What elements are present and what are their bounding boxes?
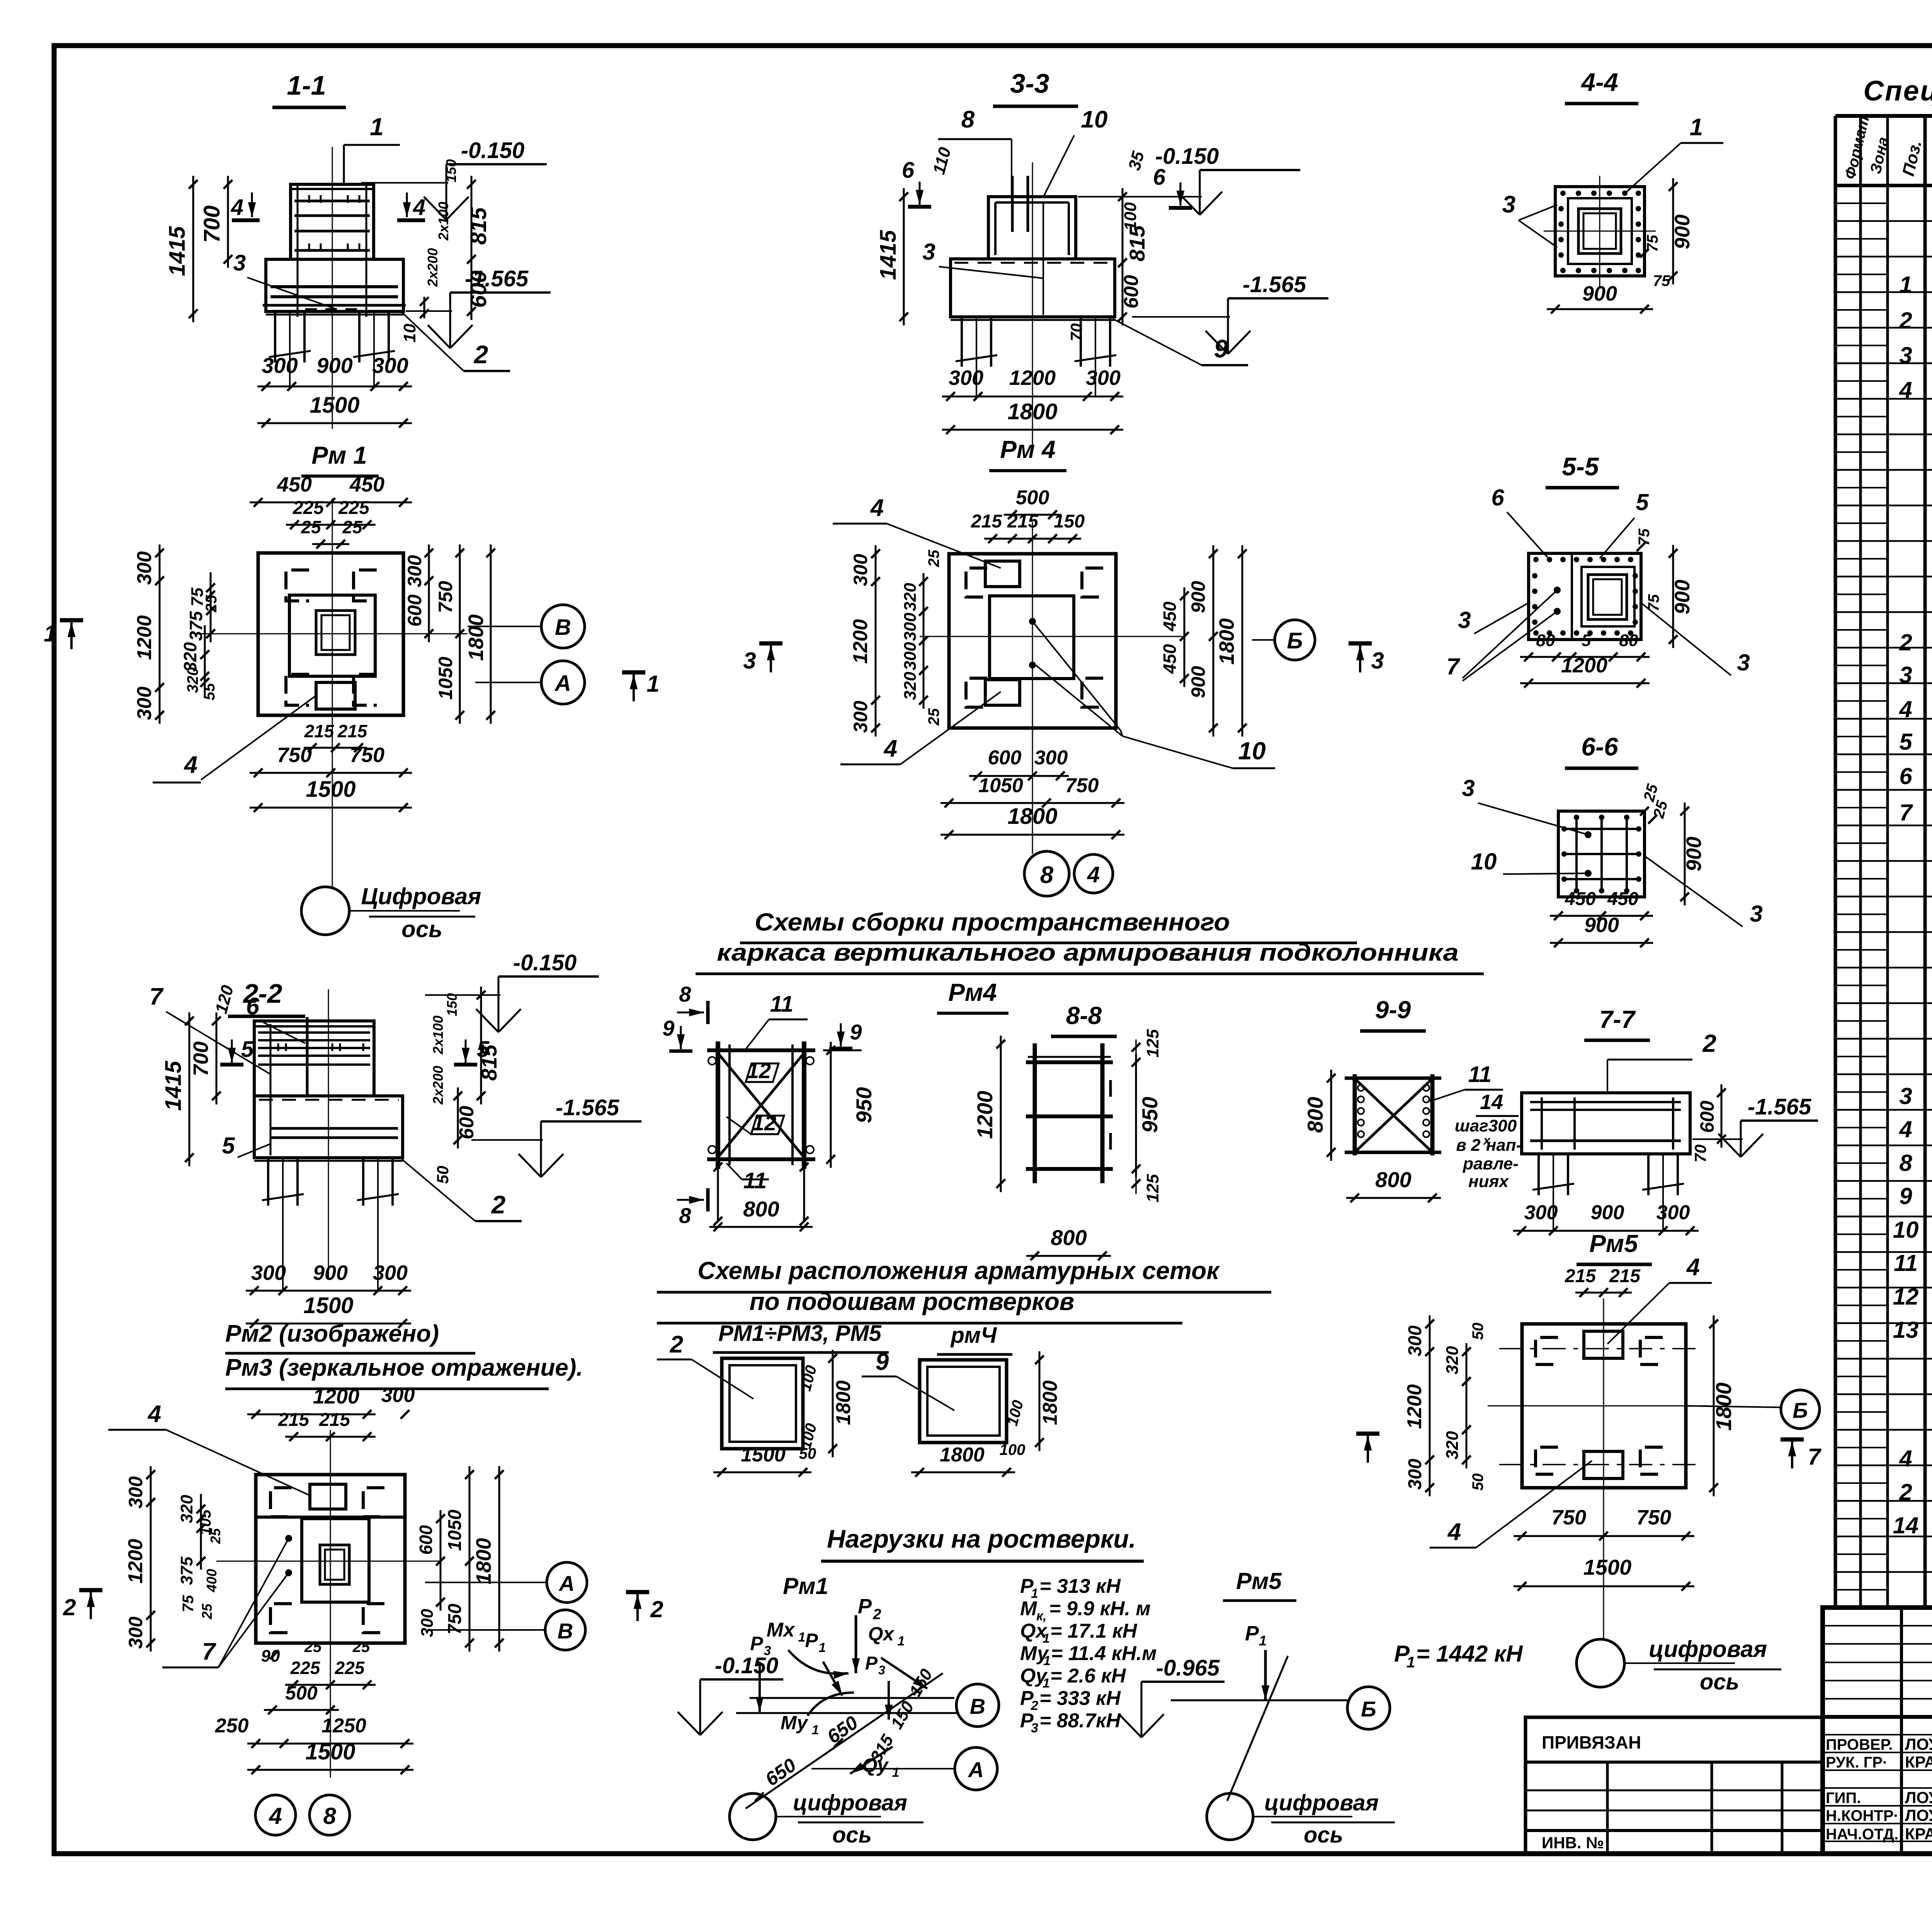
svg-text:600: 600 (404, 594, 425, 627)
svg-text:5: 5 (1899, 729, 1913, 755)
svg-text:4: 4 (1686, 1254, 1700, 1281)
svg-text:5: 5 (222, 1133, 235, 1159)
section 3-3 rebar verticals (1011, 176, 1014, 232)
svg-text:1500: 1500 (303, 1293, 353, 1318)
svg-text:-0.965: -0.965 (1156, 1655, 1220, 1681)
svg-text:3: 3 (922, 239, 935, 265)
section 1-1 column rebar (294, 200, 370, 202)
svg-text:300: 300 (850, 554, 871, 586)
svg-text:815: 815 (477, 1044, 501, 1080)
xframe dim 950 right (830, 1042, 832, 1168)
section 1-1 dim 700 left (227, 176, 229, 268)
plan Rm1 centerlines (332, 498, 333, 889)
svg-text:25: 25 (342, 517, 363, 537)
plan Rm4 outer square (949, 554, 1116, 728)
section 6-6 outer square (1558, 811, 1645, 897)
svg-text:1050: 1050 (435, 657, 456, 699)
svg-text:300: 300 (901, 612, 920, 641)
svg-text:25: 25 (207, 1528, 223, 1544)
svg-text:= 313 кН: = 313 кН (1039, 1575, 1121, 1597)
xframe dim 800 bottom (717, 1167, 719, 1221)
svg-text:3: 3 (1899, 1083, 1912, 1109)
svg-text:320: 320 (901, 583, 920, 611)
svg-text:Р: Р (750, 1633, 763, 1654)
svg-text:3: 3 (1371, 648, 1384, 674)
svg-text:90: 90 (261, 1647, 280, 1666)
svg-text:Н.КОНТР·: Н.КОНТР· (1826, 1807, 1899, 1824)
privyazan block (1526, 1717, 1823, 1854)
plan Rm2 section mark 2 right (636, 1594, 639, 1621)
section 1-1 label 2 leader (402, 312, 464, 371)
section 5-5 divider (1571, 553, 1573, 640)
svg-text:215: 215 (1565, 1266, 1596, 1286)
svg-text:300: 300 (949, 366, 983, 390)
svg-text:80: 80 (1619, 631, 1638, 650)
svg-text:= 11.4 кН.м: = 11.4 кН.м (1051, 1642, 1156, 1665)
svg-text:300: 300 (251, 1261, 286, 1284)
svg-text:Рм5: Рм5 (1589, 1230, 1638, 1257)
section 3-3 dim 1415 (903, 188, 905, 325)
svg-text:2: 2 (1899, 308, 1912, 333)
svg-text:5-5: 5-5 (1562, 452, 1599, 481)
svg-text:1200: 1200 (1403, 1384, 1426, 1429)
svg-text:8: 8 (679, 982, 691, 1006)
svg-text:Р: Р (865, 1653, 878, 1674)
xframe top bar (707, 1048, 815, 1052)
svg-text:1800: 1800 (832, 1380, 855, 1425)
svg-text:750: 750 (1065, 774, 1099, 797)
plan Rm4 centerlines (1032, 522, 1033, 850)
svg-text:1050: 1050 (978, 774, 1023, 797)
svg-text:215: 215 (1609, 1266, 1641, 1286)
plan Rm1 bottom dims (304, 747, 367, 749)
scheme 8-8 bars (1026, 1060, 1113, 1064)
scheme 9-9 dim 800 bottom (1346, 1197, 1441, 1199)
section 1-1 section mark 4 left (251, 192, 253, 217)
xframe diagonals (719, 1055, 803, 1155)
svg-text:215: 215 (304, 721, 335, 741)
svg-text:300: 300 (1405, 1325, 1425, 1356)
svg-text:3: 3 (1899, 342, 1912, 368)
svg-text:цифровая: цифровая (1649, 1636, 1767, 1662)
section 1-1 column outline (291, 184, 374, 259)
svg-text:ЛОУЦКЕР: ЛОУЦКЕР (1905, 1788, 1932, 1807)
svg-text:7: 7 (202, 1638, 216, 1665)
svg-text:600: 600 (416, 1525, 436, 1555)
plan Rm1 section mark 1 right (633, 674, 635, 701)
svg-text:1800: 1800 (472, 1538, 495, 1584)
svg-text:14: 14 (1480, 1090, 1503, 1114)
svg-text:225: 225 (338, 498, 370, 518)
plan Rm1 left dims (159, 544, 161, 724)
plan Rm4 left dims (875, 545, 877, 737)
svg-text:9: 9 (1214, 334, 1228, 363)
svg-text:Рм2 (изображено): Рм2 (изображено) (225, 1320, 439, 1347)
svg-text:3: 3 (1899, 662, 1912, 688)
svg-text:1415: 1415 (165, 226, 190, 276)
section 2-2 section mark 5 right (465, 1039, 467, 1063)
svg-text:4: 4 (1899, 696, 1912, 722)
svg-text:РМ1÷РМ3, РМ5: РМ1÷РМ3, РМ5 (718, 1321, 882, 1346)
plan Rm4 section mark 3 right (1359, 645, 1361, 672)
section 2-2 piles (267, 1158, 269, 1206)
svg-text:320: 320 (177, 1495, 196, 1523)
section 1-1 centerline (332, 147, 333, 429)
svg-text:900: 900 (313, 1261, 348, 1284)
plan Rm4 top dims (1004, 514, 1061, 516)
svg-text:1: 1 (892, 1765, 900, 1780)
svg-text:1-1: 1-1 (287, 70, 326, 100)
section 5-5 inner squares (1582, 567, 1634, 626)
svg-text:1500: 1500 (306, 777, 355, 802)
svg-text:2х200: 2х200 (425, 248, 440, 287)
loads Rm5 axis circle bottom (1207, 1793, 1253, 1840)
svg-text:2: 2 (473, 340, 488, 369)
plan Rm1 axis circle bottom (301, 887, 349, 935)
plan Rm5 section mark 7 left (1367, 1436, 1369, 1463)
svg-text:900: 900 (1591, 1201, 1624, 1224)
plan Rm2 right dims (440, 1510, 442, 1611)
svg-text:ПРОВЕР.: ПРОВЕР. (1826, 1736, 1893, 1753)
svg-text:11: 11 (1894, 1250, 1918, 1276)
plan Rm1 innermost square (316, 611, 355, 655)
scheme 8-8 posts (1033, 1043, 1037, 1183)
svg-text:1: 1 (1899, 272, 1912, 298)
svg-text:5: 5 (1636, 489, 1649, 515)
section 3-3 section mark 6 left (919, 182, 921, 205)
svg-text:4: 4 (184, 752, 197, 778)
svg-text:750: 750 (1551, 1506, 1586, 1529)
svg-text:цифровая: цифровая (1264, 1790, 1379, 1815)
svg-text:-0.150: -0.150 (513, 950, 577, 975)
svg-text:600: 600 (988, 747, 1022, 769)
svg-text:300: 300 (262, 353, 298, 378)
svg-text:25: 25 (304, 1638, 322, 1655)
svg-text:4: 4 (1087, 862, 1100, 887)
svg-text:13: 13 (1893, 1317, 1919, 1343)
svg-text:1250: 1250 (321, 1715, 366, 1737)
svg-text:ось: ось (1304, 1822, 1343, 1848)
section 7-7 bottom dims (1513, 1230, 1699, 1232)
svg-text:9: 9 (850, 1020, 862, 1044)
svg-text:900: 900 (1584, 914, 1619, 937)
svg-text:700: 700 (189, 1041, 213, 1076)
svg-text:320: 320 (1443, 1431, 1462, 1460)
svg-text:2: 2 (1702, 1029, 1716, 1057)
plan Rm4 axis circle B (1275, 620, 1315, 660)
svg-text:300: 300 (125, 1476, 146, 1509)
svg-text:950: 950 (1138, 1097, 1162, 1133)
svg-text:4: 4 (883, 735, 897, 762)
svg-text:3-3: 3-3 (1010, 68, 1049, 99)
svg-text:225: 225 (290, 1658, 321, 1678)
svg-text:75: 75 (180, 1595, 197, 1612)
svg-text:4: 4 (147, 1401, 161, 1427)
svg-text:500: 500 (285, 1682, 318, 1704)
svg-text:1: 1 (819, 1640, 826, 1655)
plan Rm4 right dims (1184, 587, 1185, 687)
svg-text:Рм4: Рм4 (948, 978, 997, 1006)
svg-text:ось: ось (832, 1822, 872, 1848)
svg-text:-1.565: -1.565 (1243, 272, 1306, 297)
svg-text:3: 3 (1750, 901, 1762, 927)
svg-text:1: 1 (798, 1630, 806, 1645)
svg-text:2х100: 2х100 (430, 1016, 446, 1055)
svg-text:Рм 1: Рм 1 (311, 441, 367, 469)
svg-text:2х200: 2х200 (430, 1066, 446, 1105)
svg-text:50: 50 (799, 1445, 816, 1462)
plan Rm4 top small rect (985, 561, 1020, 587)
svg-text:600: 600 (466, 270, 491, 308)
svg-text:3: 3 (233, 250, 246, 276)
plan Rm2 axis circle B (545, 1610, 585, 1650)
loads Rm1 plane lines (750, 1697, 954, 1699)
plan Rm5 corner brackets (1536, 1337, 1558, 1364)
plan Rm2 outer square (256, 1475, 405, 1643)
svg-text:2: 2 (1899, 629, 1912, 655)
svg-text:250: 250 (215, 1715, 249, 1737)
svg-text:1: 1 (1406, 1654, 1415, 1671)
svg-text:6: 6 (1491, 485, 1504, 510)
svg-text:= 88.7кН: = 88.7кН (1039, 1710, 1121, 1732)
section 2-2 section mark 5 left (231, 1039, 233, 1063)
svg-text:125: 125 (1143, 1174, 1162, 1203)
svg-text:1800: 1800 (1007, 399, 1057, 424)
svg-text:7: 7 (1446, 653, 1460, 679)
svg-text:В: В (558, 1619, 573, 1643)
plan Rm5 right dim 1800 (1713, 1315, 1715, 1496)
svg-text:1500: 1500 (305, 1739, 355, 1764)
svg-text:1: 1 (1259, 1633, 1267, 1649)
plan Rm4 corner brackets (966, 568, 987, 597)
svg-text:125: 125 (1143, 1029, 1162, 1058)
section 4-4 inner squares (1568, 198, 1632, 264)
svg-text:150: 150 (444, 993, 460, 1016)
svg-text:12: 12 (747, 1058, 771, 1083)
section 6-6 rebar grid (1575, 815, 1578, 893)
svg-text:900: 900 (1187, 581, 1209, 613)
svg-text:2: 2 (1899, 1479, 1912, 1505)
svg-text:Р: Р (1245, 1622, 1259, 1645)
plan Rm2 left dims (150, 1466, 152, 1652)
section 3-3 section mark 6 right (1180, 182, 1182, 206)
svg-text:1: 1 (646, 671, 659, 697)
svg-text:10: 10 (1081, 106, 1108, 133)
plan Rm2 top dims (247, 1414, 376, 1415)
plan Rm2 bolts (285, 1535, 292, 1542)
svg-text:4: 4 (1899, 377, 1912, 403)
scheme 8-8 right hooks (1109, 1080, 1112, 1097)
svg-text:4: 4 (1899, 1116, 1912, 1142)
svg-text:ПРИВЯЗАН: ПРИВЯЗАН (1542, 1732, 1641, 1752)
svg-text:12: 12 (752, 1111, 776, 1135)
svg-text:9: 9 (1899, 1183, 1912, 1209)
svg-text:1200: 1200 (1009, 366, 1056, 390)
svg-text:= 2.6 кН: = 2.6 кН (1050, 1665, 1126, 1687)
section 1-1 right small dims (471, 176, 473, 320)
svg-text:каркаса вертикального армиро: каркаса вертикального армирования подкол… (717, 939, 1459, 966)
loads Rm1 force P2 (855, 1615, 857, 1673)
section 7-7 inner rebar (1530, 1101, 1681, 1103)
plan Rm4 bottom small rect (985, 680, 1020, 705)
svg-text:2х100: 2х100 (435, 202, 451, 241)
scheme 9-9 dim 800 left (1330, 1070, 1332, 1161)
loads Rm1 axis circle bottom (730, 1793, 776, 1840)
plan Rm2 upper strip line (256, 1516, 405, 1519)
svg-text:А: А (968, 1757, 984, 1782)
svg-text:450: 450 (1160, 601, 1180, 631)
xframe bottom bar (707, 1157, 815, 1161)
svg-text:6: 6 (246, 993, 260, 1020)
xframe hook circles (708, 1057, 716, 1065)
svg-text:50: 50 (1469, 1323, 1486, 1340)
svg-text:6: 6 (902, 158, 915, 183)
svg-text:5: 5 (241, 1037, 254, 1062)
section 1-1 pile cap outline (266, 259, 403, 311)
svg-text:300: 300 (125, 1616, 146, 1649)
plan Rm5 outer rect (1522, 1324, 1686, 1488)
svg-text:= 17.1 кН: = 17.1 кН (1050, 1620, 1138, 1642)
svg-text:А: А (554, 671, 571, 696)
svg-text:450: 450 (277, 473, 312, 496)
plan Rm5 top anchor rect (1584, 1331, 1623, 1358)
svg-text:14: 14 (1893, 1512, 1919, 1538)
svg-text:450: 450 (1565, 889, 1596, 909)
plan Rm2 bottom dims 2 (247, 1743, 413, 1745)
svg-text:100: 100 (1000, 1441, 1026, 1458)
svg-text:Рм 4: Рм 4 (1000, 436, 1055, 463)
svg-text:800: 800 (1051, 1225, 1087, 1250)
svg-text:2: 2 (872, 1606, 881, 1623)
svg-text:320: 320 (1443, 1346, 1462, 1375)
svg-text:375: 375 (186, 611, 206, 641)
plan Rm5 section mark 7 right (1791, 1441, 1793, 1468)
svg-text:215: 215 (319, 1410, 350, 1430)
svg-text:Рм1: Рм1 (783, 1573, 828, 1599)
section 1-1 dim 1415 left (192, 176, 194, 322)
svg-text:815: 815 (466, 207, 491, 245)
svg-text:4: 4 (413, 195, 425, 220)
svg-text:900: 900 (1671, 214, 1694, 249)
plan Rm5 centerlines (1603, 1298, 1604, 1638)
svg-text:150: 150 (1054, 511, 1085, 532)
section 2-2 dim 700 (216, 1012, 218, 1104)
privyazan sub-table (1526, 1790, 1823, 1791)
plan Rm1 corner brackets (286, 570, 309, 601)
svg-text:450: 450 (349, 473, 384, 496)
svg-text:ось: ось (1700, 1669, 1739, 1694)
svg-text:Мх: Мх (767, 1619, 795, 1641)
svg-text:Му: Му (781, 1712, 808, 1734)
svg-text:750: 750 (350, 743, 384, 767)
plan Rm5 top dims (1575, 1292, 1632, 1294)
svg-text:нап-: нап- (1486, 1136, 1522, 1155)
plan Rm4 axis circles 8 4 bottom (1024, 851, 1069, 896)
plan Rm1 lower anchor rect (316, 682, 355, 709)
loads Rm1 axis circle V (956, 1684, 999, 1727)
svg-text:300: 300 (1405, 1459, 1425, 1490)
svg-text:2: 2 (650, 1596, 663, 1622)
svg-text:8: 8 (1899, 1150, 1912, 1176)
svg-text:11: 11 (743, 1168, 767, 1193)
svg-text:1200: 1200 (1561, 654, 1607, 677)
svg-text:ИНВ. №: ИНВ. № (1542, 1834, 1604, 1852)
svg-text:750: 750 (435, 581, 456, 613)
loads Rm1 diagonal axis (746, 1673, 943, 1808)
svg-text:600: 600 (456, 1106, 478, 1140)
svg-text:1500: 1500 (1583, 1555, 1632, 1579)
svg-text:равле-: равле- (1463, 1154, 1519, 1173)
svg-text:РУК. ГР·: РУК. ГР· (1826, 1754, 1888, 1771)
svg-text:11: 11 (770, 992, 793, 1017)
plan Rm5 bottom dims (1514, 1535, 1694, 1537)
plan Rm5 axis circle B (1781, 1390, 1820, 1429)
plan Rm4 bottom dims (969, 775, 1069, 777)
svg-text:300: 300 (418, 1609, 437, 1637)
svg-text:55: 55 (201, 683, 218, 700)
svg-text:300: 300 (381, 1384, 415, 1407)
svg-text:750: 750 (277, 743, 312, 767)
svg-text:рмЧ: рмЧ (950, 1323, 998, 1348)
svg-text:70: 70 (1691, 1145, 1709, 1163)
svg-text:11: 11 (1468, 1062, 1492, 1087)
svg-text:300: 300 (1086, 366, 1121, 390)
svg-text:1800: 1800 (940, 1444, 985, 1466)
svg-text:4: 4 (870, 495, 884, 521)
svg-text:900: 900 (1187, 666, 1209, 698)
svg-text:ЛОУЦКЕР: ЛОУЦКЕР (1905, 1735, 1932, 1753)
section 7-7 beam outline (1522, 1093, 1690, 1154)
svg-text:25: 25 (199, 1603, 215, 1620)
section 4-4 dims (1672, 178, 1674, 284)
section 2-2 rebar horizontals (258, 1031, 370, 1034)
svg-text:2: 2 (670, 1331, 683, 1358)
svg-text:300: 300 (133, 551, 156, 585)
loads Rm5 axis circle B (1347, 1687, 1390, 1729)
svg-text:3: 3 (1458, 607, 1471, 633)
svg-text:3: 3 (764, 1643, 771, 1658)
svg-text:8: 8 (961, 106, 975, 133)
plan Rm4 bolts and leaders (1029, 618, 1036, 625)
scheme 8-8 dim 1200 left (1000, 1036, 1002, 1192)
svg-text:7: 7 (1808, 1444, 1821, 1470)
svg-text:3: 3 (878, 1663, 885, 1677)
svg-text:Спецификация к монолитным р: Спецификация к монолитным ростверкам (1863, 75, 1932, 107)
svg-text:400: 400 (204, 1569, 219, 1592)
svg-text:900: 900 (1582, 282, 1617, 305)
svg-text:-1.565: -1.565 (556, 1095, 619, 1120)
svg-text:80: 80 (1536, 631, 1555, 650)
section 1-1 section mark 4 right (406, 192, 408, 217)
plan Rm1 outer square (258, 553, 403, 715)
svg-text:В: В (555, 615, 571, 640)
xframe section mark 9 right (840, 1023, 842, 1046)
svg-text:КРАСНОВА: КРАСНОВА (1905, 1753, 1932, 1771)
svg-text:Р: Р (858, 1595, 872, 1618)
plan Rm2 axis circle A (547, 1562, 587, 1603)
svg-text:215: 215 (1007, 511, 1039, 532)
svg-text:8: 8 (1040, 862, 1054, 888)
mesh scheme square 1 (722, 1358, 803, 1449)
section 3-3 column outline (988, 197, 1076, 259)
svg-text:950: 950 (852, 1087, 876, 1123)
svg-text:3: 3 (1462, 775, 1475, 801)
loads Rm5 diagonal (1227, 1656, 1288, 1801)
section 1-1 bottom dims (257, 386, 412, 388)
svg-text:1: 1 (1690, 114, 1703, 141)
svg-text:8: 8 (679, 1203, 691, 1228)
plan Rm5 axis circle bottom (1577, 1639, 1624, 1687)
